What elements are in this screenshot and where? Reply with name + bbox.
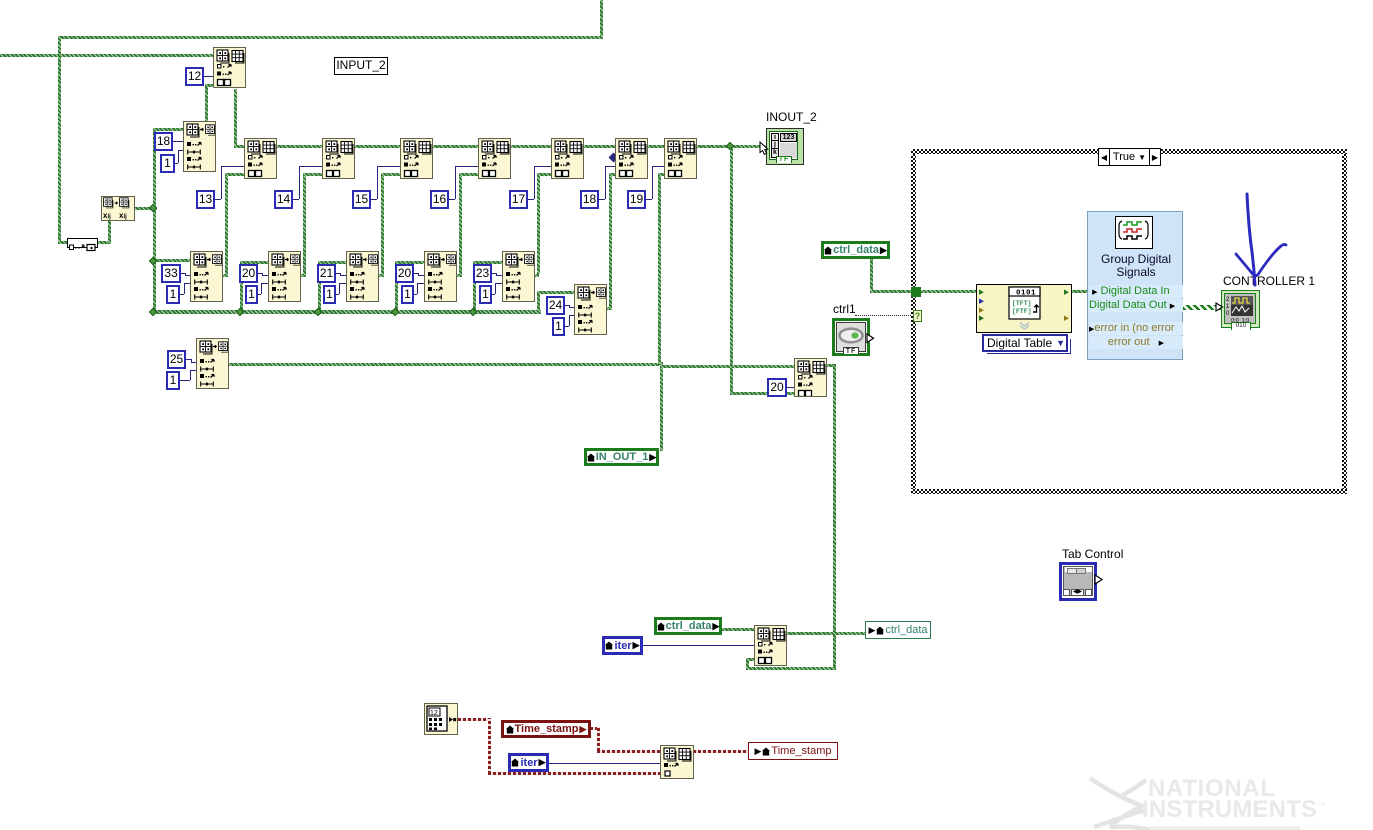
node 20b Insert Into Array <box>424 251 457 302</box>
wire into node 18 bottom <box>609 173 616 176</box>
local variable iter upper <box>602 636 643 655</box>
wire into build array bottom <box>730 392 795 395</box>
wire into node 23 <box>473 261 503 264</box>
terminal INOUT_2 <box>766 128 804 165</box>
wire constant 20 build <box>786 387 794 388</box>
node B1 Insert Into Array (18) <box>183 121 216 172</box>
wire constant 20b <box>413 273 418 274</box>
node build array bottom <box>660 745 694 779</box>
wire constant 17 <box>527 199 534 200</box>
wire constant 1 of 25 <box>180 380 190 381</box>
wire riser to node 23 <box>473 261 476 312</box>
constant 33 <box>161 264 181 283</box>
svg-text:[FTF]: [FTF] <box>1012 308 1032 315</box>
wire stub into node 12 element input <box>205 84 214 87</box>
wire array bus <box>153 310 541 314</box>
constant 1 for B1 <box>160 154 175 173</box>
wire from top edge <box>600 0 603 37</box>
wire top horizontal <box>58 36 603 39</box>
svg-text:xij: xij <box>103 211 111 220</box>
wire riser to node 24 <box>537 292 540 312</box>
cursor arrow on CONTROLLER 1 <box>1215 302 1225 313</box>
terminal Tab Control <box>1059 562 1097 601</box>
label Tab Control <box>1062 547 1123 561</box>
wire into express VI <box>870 290 977 293</box>
wire constant 14 <box>292 199 299 200</box>
node 33 Insert Into Array <box>190 251 223 302</box>
svg-text:1: 1 <box>1226 304 1230 310</box>
wire constant 20a <box>257 273 262 274</box>
wire down to lower node <box>833 364 836 670</box>
local variable ctrl_data read top <box>821 241 890 259</box>
label CONTROLLER 1 <box>1223 274 1315 288</box>
wire Digital Data Out to CONTROLLER 1 <box>1183 305 1221 310</box>
node build array lower <box>754 625 787 666</box>
wire into node 15 bottom <box>381 173 401 176</box>
wire main left vertical <box>153 128 156 313</box>
constant 1 of 21 <box>323 285 336 304</box>
junction bus 4 <box>469 307 477 315</box>
wire node 14 to 15 <box>354 145 401 148</box>
wire constant 18 B1 <box>172 141 183 142</box>
National Instruments watermark <box>1080 770 1373 830</box>
svg-text:2: 2 <box>1226 297 1230 303</box>
wire bool-to-num out <box>97 241 110 244</box>
wire node 24 out up <box>609 173 612 310</box>
wire build array out <box>826 364 836 367</box>
constant 18 for B1 <box>154 132 173 151</box>
wire up to transpose node <box>108 220 111 244</box>
wire Time_stamp write <box>693 750 749 753</box>
node 17 Replace Array Subset <box>551 138 584 179</box>
wire node 12 out down <box>234 89 237 147</box>
wire constant 16 <box>448 199 455 200</box>
case selector label True <box>1098 148 1161 166</box>
node 15 Replace Array Subset <box>400 138 433 179</box>
constant 16 <box>430 190 449 209</box>
wire node 16 to 17 <box>510 145 552 148</box>
constant 25 <box>167 350 186 369</box>
wire constant 19 <box>645 199 652 200</box>
junction node 33 feed <box>149 257 157 265</box>
junction dot constant 18 <box>609 153 619 163</box>
wire into node 21 <box>318 261 347 264</box>
constant 1 of 33 <box>166 285 180 304</box>
junction bus left <box>149 307 157 315</box>
constant 1 of 23 <box>479 285 492 304</box>
wire constant 12 <box>203 76 213 77</box>
node 23 Insert Into Array <box>502 251 535 302</box>
junction bus 3 <box>391 307 399 315</box>
wire node 18 to 19 <box>647 145 665 148</box>
cursor arrow on INOUT_2 <box>758 141 772 157</box>
wire constant 21 <box>335 273 340 274</box>
wire node 20b out <box>456 274 462 277</box>
wire down to build array <box>730 145 733 395</box>
wire into lower node bottom <box>746 658 755 661</box>
label ctrl1 <box>833 302 856 316</box>
constant 20 build <box>767 378 787 397</box>
constant 18 <box>580 190 599 209</box>
constant 24 <box>546 296 565 315</box>
wire Time_stamp read <box>590 727 600 730</box>
wire constant 24 <box>564 305 569 306</box>
express VI Group Digital Signals <box>1087 211 1183 360</box>
svg-text:12: 12 <box>430 710 438 717</box>
wire iter to bottom node <box>549 763 660 764</box>
terminal ctrl1 <box>832 318 870 356</box>
wire constant 25 <box>186 359 191 360</box>
wire into node 20b <box>395 261 425 264</box>
wire node 24 out <box>606 307 612 310</box>
node 16 Replace Array Subset <box>478 138 511 179</box>
constant 1 of 25 <box>166 371 180 390</box>
constant 14 <box>274 190 293 209</box>
constant 13 <box>196 190 215 209</box>
wire constant 1 of 23 <box>480 294 495 295</box>
wire node 25 out <box>228 363 660 366</box>
svg-text:™: ™ <box>1318 801 1327 810</box>
wire constant 18 <box>598 199 605 200</box>
constant 20 <box>395 264 414 283</box>
terminal CONTROLLER 1 <box>1221 290 1260 328</box>
wire express VI to Group node <box>1071 290 1088 293</box>
wire node 33 out <box>222 274 228 277</box>
wire riser to node 20a <box>240 261 243 312</box>
constant 17 <box>509 190 528 209</box>
blue pen scribble <box>1225 190 1295 290</box>
wire riser to node 20b <box>395 261 398 312</box>
wire node 13 to 14 <box>276 145 323 148</box>
label INOUT_2 <box>766 110 817 124</box>
wire ctrl_data read to lower node <box>722 628 755 631</box>
express VI Build Digital Data <box>976 284 1072 333</box>
wire into node 13 bottom <box>225 173 245 176</box>
node 13 Replace Array Subset <box>244 138 277 179</box>
wire constant 1 of 24 <box>565 326 569 327</box>
node build array right <box>794 358 827 397</box>
local variable ctrl_data read lower <box>654 617 722 635</box>
wire left vertical <box>58 36 61 243</box>
label INPUT_2 <box>334 57 388 75</box>
junction bus 1 <box>236 307 244 315</box>
wire to build array top <box>660 365 794 368</box>
svg-text:0101: 0101 <box>1016 290 1036 298</box>
wire into node 24 array in <box>537 291 575 294</box>
wire constant 33 <box>180 273 185 274</box>
wire into bool-to-num node <box>58 241 68 244</box>
node 20a Insert Into Array <box>268 251 301 302</box>
wire node 33 out up <box>225 173 228 276</box>
wire into node 14 bottom <box>303 173 323 176</box>
case selector terminal ? <box>913 310 922 322</box>
wire node 19 to INOUT_2 <box>696 145 767 148</box>
wire node 23 out up <box>537 173 540 274</box>
node boolean array to number <box>67 238 98 248</box>
wire riser to node 21 <box>318 261 321 312</box>
wire node 20a out <box>300 274 306 277</box>
wire lower feed <box>746 667 836 670</box>
dropdown Digital Table <box>982 334 1068 352</box>
wire constant 1 of 20a <box>246 294 261 295</box>
wire constant 15 <box>370 199 377 200</box>
wire into node 19 bottom <box>658 173 665 176</box>
wire constant 23 <box>491 273 496 274</box>
wire node 17 to 18 <box>583 145 616 148</box>
junction main out <box>726 142 734 150</box>
local variable Time_stamp write <box>748 742 838 760</box>
node Get Date-Time <box>424 703 458 735</box>
constant 19 <box>627 190 646 209</box>
constant 21 <box>317 264 336 283</box>
constant 23 <box>473 264 492 283</box>
wire up to node 19 bottom <box>658 173 661 365</box>
wire constant 1 of 33 <box>169 294 184 295</box>
wire ctrl_data down <box>870 258 873 292</box>
local variable ctrl_data write <box>865 621 931 639</box>
node transpose matrix Xij <box>101 196 135 221</box>
wire node 20a out up <box>303 173 306 276</box>
node 21 Insert Into Array <box>346 251 379 302</box>
wire iter to lower node <box>642 645 754 646</box>
wire into node 16 bottom <box>459 173 479 176</box>
svg-text:[TFT]: [TFT] <box>1012 300 1032 307</box>
wire into node 20a <box>240 261 269 264</box>
constant 12 <box>185 67 204 86</box>
node 19 Replace Array Subset <box>664 138 697 179</box>
wire INPUT_2 array into node 12 <box>0 54 213 57</box>
cursor arrow on ctrl1 <box>866 333 876 344</box>
node 24 Insert Into Array <box>574 284 607 335</box>
constant 15 <box>352 190 371 209</box>
constant 1 of 24 <box>552 317 565 336</box>
wire node 21 out <box>378 274 384 277</box>
wire into node B1 array in <box>153 128 184 131</box>
svg-text:INSTRUMENTS: INSTRUMENTS <box>1142 796 1318 823</box>
svg-text:0: 0 <box>1226 311 1230 317</box>
constant 1 of 20 <box>401 285 414 304</box>
wire into node 13 array in <box>234 145 245 148</box>
wire lower node out to ctrl_data write <box>786 632 866 635</box>
wire constant 1 of 20b <box>402 294 417 295</box>
junction bus 2 <box>314 307 322 315</box>
wire ctrl1 to case selector dotted <box>855 315 913 316</box>
wire into node 17 bottom <box>537 173 552 176</box>
wire constant 13 <box>214 199 221 200</box>
wire node 15 to 16 <box>432 145 479 148</box>
wire node 20b out up <box>459 173 462 276</box>
wire constant 1 B1 <box>174 163 178 164</box>
junction transpose out <box>149 204 157 212</box>
wire transpose out <box>133 207 157 210</box>
node 25 Insert Into Array <box>196 338 229 389</box>
case structure frame <box>911 149 1347 154</box>
local variable iter lower <box>508 753 549 772</box>
wire down to IN_OUT_1 <box>660 362 663 451</box>
node 18 Replace Array Subset <box>615 138 648 179</box>
wire clock out <box>458 718 491 721</box>
node 12 Replace Array Subset <box>213 47 246 88</box>
local variable Time_stamp read <box>501 720 591 738</box>
wire node 23 out <box>534 274 539 277</box>
svg-text:xij: xij <box>119 211 127 220</box>
wire lower feed up <box>746 658 749 670</box>
wire node 21 out up <box>381 173 384 276</box>
constant 1 of 20 <box>245 285 258 304</box>
case tunnel <box>911 287 921 297</box>
node 14 Replace Array Subset <box>322 138 355 179</box>
wire constant 1 of 21 <box>324 294 339 295</box>
constant 20 <box>239 264 258 283</box>
wire into node 33 array in <box>153 259 191 262</box>
local variable IN_OUT_1 <box>584 448 659 466</box>
wire node B1 out up to node 12 <box>205 84 208 122</box>
